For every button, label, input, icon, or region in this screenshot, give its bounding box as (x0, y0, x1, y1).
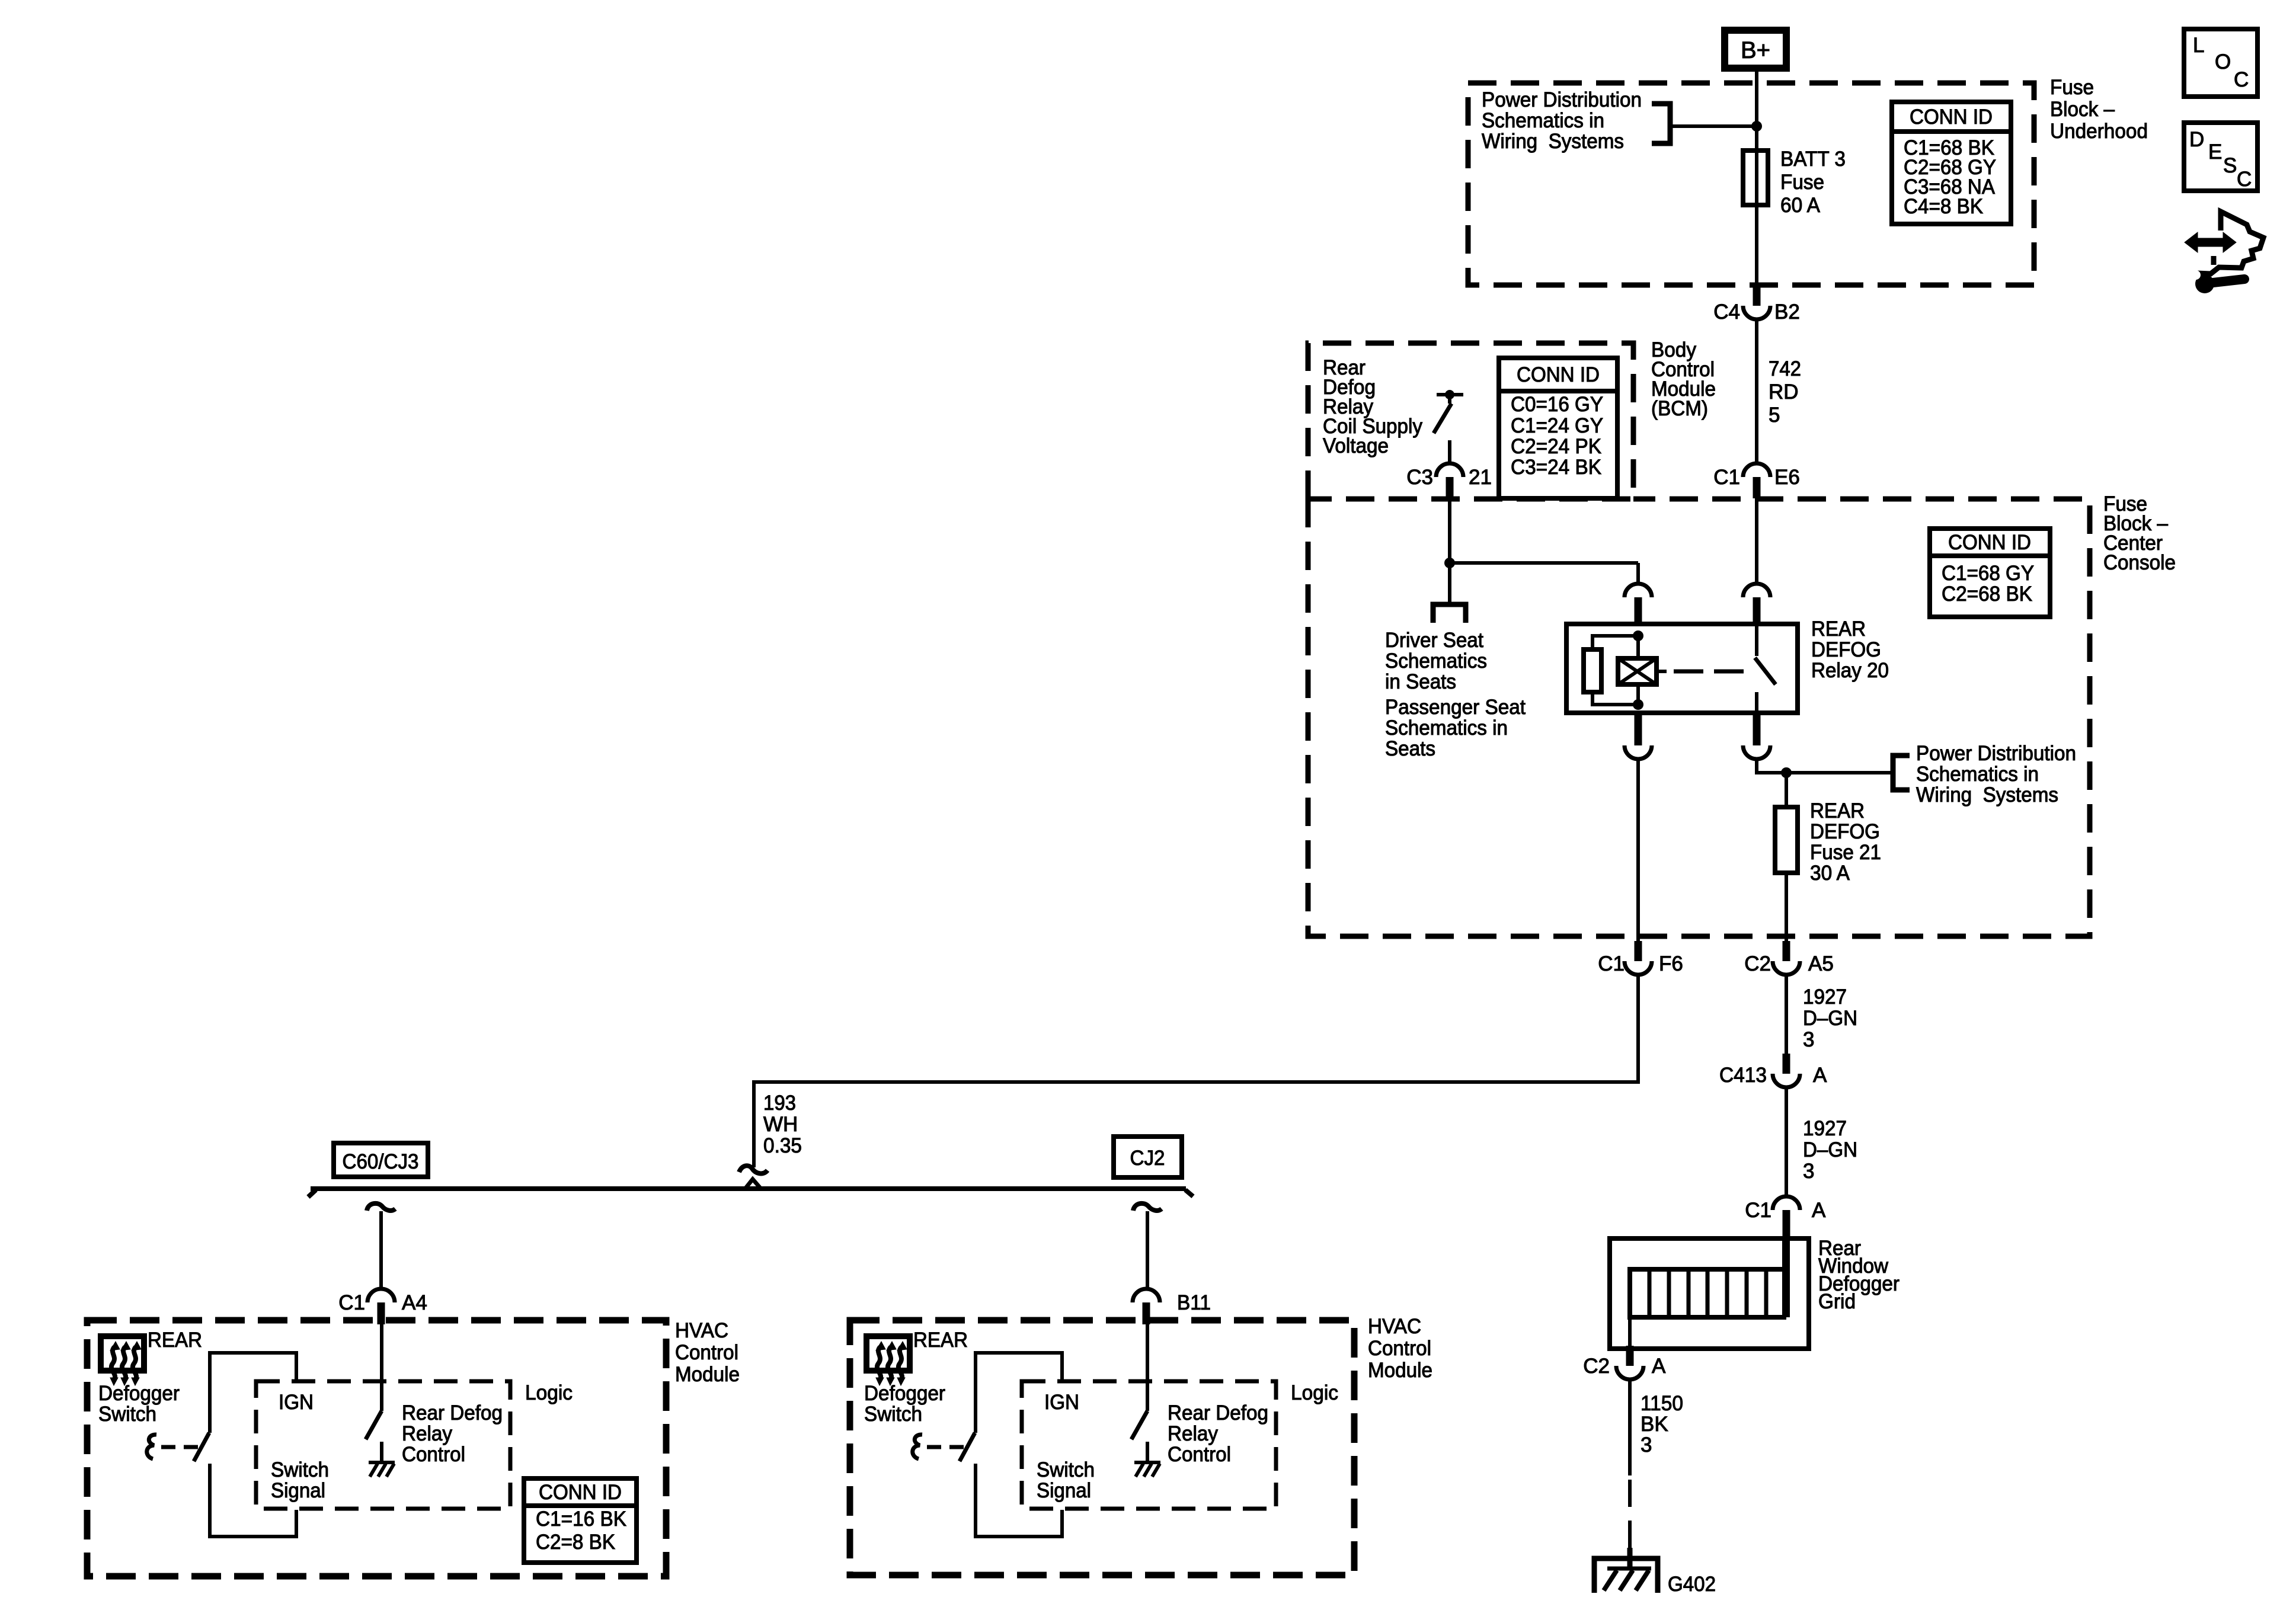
off-page bracket to Power Distribution console (1893, 756, 1910, 790)
connector C1 F6 (1625, 941, 1652, 975)
svg-text:1927: 1927 (1803, 1117, 1847, 1140)
dashed wire to ground (1628, 1480, 1632, 1548)
svg-text:B11: B11 (1177, 1291, 1211, 1314)
svg-text:30 A: 30 A (1810, 862, 1850, 885)
svg-text:742: 742 (1769, 357, 1801, 380)
wire relay to fuse junction (1757, 759, 1891, 773)
splice crimp symbol (739, 1166, 768, 1173)
node junction rear defog fuse (1781, 767, 1792, 778)
svg-text:CONN ID: CONN ID (1910, 105, 1993, 129)
svg-text:Schematics in: Schematics in (1482, 109, 1604, 132)
svg-text:Switch: Switch (98, 1403, 156, 1426)
svg-text:Seats: Seats (1385, 737, 1435, 760)
connector C1 E6 (1743, 463, 1770, 498)
body control module dashed box (1308, 343, 1633, 499)
rear defog relay control driver (1131, 1323, 1160, 1477)
wire 1150 BK 3 (1628, 1379, 1632, 1475)
svg-text:IGN: IGN (279, 1391, 314, 1414)
svg-text:Control: Control (402, 1443, 465, 1466)
defogger grid element (1627, 1238, 1790, 1317)
icon DESC box (2184, 123, 2257, 191)
defogger switch dashed link (927, 1445, 970, 1449)
svg-text:C1=68 GY: C1=68 GY (1942, 562, 2034, 585)
label box CJ2 (1114, 1137, 1182, 1177)
svg-text:REAR: REAR (1811, 617, 1866, 641)
wire B+ to fuse BATT 3 (1755, 72, 1758, 286)
svg-text:C3: C3 (1406, 466, 1433, 489)
svg-text:IGN: IGN (1044, 1391, 1079, 1414)
svg-text:CJ2: CJ2 (1130, 1147, 1165, 1170)
defogger switch dashed link (161, 1445, 204, 1449)
svg-text:193: 193 (763, 1092, 796, 1115)
svg-text:Underhood: Underhood (2050, 120, 2148, 143)
svg-text:Switch: Switch (271, 1458, 329, 1481)
svg-text:C: C (2234, 68, 2249, 91)
svg-text:Defogger: Defogger (864, 1382, 945, 1405)
power symbol B+ (1725, 30, 1786, 68)
svg-text:C2=68 BK: C2=68 BK (1942, 582, 2032, 606)
svg-text:21: 21 (1469, 466, 1492, 489)
svg-text:Console: Console (2103, 551, 2176, 574)
off-page bracket to Power Distribution (1652, 104, 1670, 143)
svg-text:in Seats: in Seats (1385, 670, 1456, 693)
wire 1927 D-GN upper (1785, 975, 1788, 1054)
relay output connector 85 (1625, 714, 1652, 759)
svg-text:Logic: Logic (525, 1381, 573, 1404)
svg-text:C4: C4 (1713, 300, 1740, 324)
svg-text:1150: 1150 (1641, 1392, 1683, 1415)
svg-text:Driver Seat: Driver Seat (1385, 629, 1483, 652)
indicator REAR defogger (866, 1336, 910, 1385)
svg-text:Schematics in: Schematics in (1385, 716, 1508, 740)
svg-text:D–GN: D–GN (1803, 1138, 1857, 1161)
svg-text:G402: G402 (1668, 1573, 1716, 1596)
node junction coil supply (1444, 558, 1455, 568)
svg-text:Switch: Switch (864, 1403, 922, 1426)
defogger switch actuator curl (913, 1435, 922, 1459)
fuse block center console dashed box (1308, 499, 2090, 936)
svg-text:Signal: Signal (1037, 1479, 1091, 1502)
svg-text:3: 3 (1803, 1028, 1814, 1051)
svg-text:Module: Module (675, 1363, 740, 1386)
svg-text:Block –: Block – (2050, 98, 2115, 121)
svg-text:Grid: Grid (1818, 1290, 1856, 1313)
svg-text:DEFOG: DEFOG (1810, 820, 1880, 843)
connector table CONN ID HVAC (524, 1478, 637, 1563)
svg-text:DEFOG: DEFOG (1811, 638, 1881, 661)
svg-text:Fuse: Fuse (1780, 171, 1824, 194)
svg-text:CONN ID: CONN ID (1948, 531, 2031, 554)
connector C4 B2 (1743, 286, 1770, 319)
logic dashed box (256, 1381, 510, 1509)
wire junction to relay coil (1450, 561, 1638, 565)
svg-text:Relay: Relay (402, 1422, 452, 1445)
svg-text:Defogger: Defogger (98, 1382, 180, 1405)
HVAC control module dashed box left (87, 1320, 666, 1576)
svg-text:C2=24 PK: C2=24 PK (1511, 435, 1601, 458)
svg-text:A: A (1812, 1199, 1826, 1222)
svg-text:C1: C1 (1745, 1199, 1771, 1222)
svg-text:REAR: REAR (913, 1329, 968, 1352)
logic dashed box (1022, 1381, 1276, 1509)
ground G402 (1594, 1548, 1658, 1593)
relay output connector 87 (1743, 714, 1770, 759)
relay actuation dashed link (1674, 670, 1746, 674)
svg-text:HVAC: HVAC (1368, 1315, 1421, 1338)
svg-text:C1=16 BK: C1=16 BK (536, 1507, 626, 1531)
wire C1 E6 to relay (1755, 498, 1758, 584)
relay coil element (1618, 658, 1667, 684)
wire junction to bracket (1670, 124, 1757, 128)
svg-text:A4: A4 (402, 1291, 427, 1314)
HVAC control module dashed box right (850, 1320, 1354, 1575)
svg-text:Schematics: Schematics (1385, 649, 1487, 673)
svg-text:C2=8 BK: C2=8 BK (536, 1531, 615, 1554)
svg-text:1927: 1927 (1803, 985, 1847, 1009)
svg-text:E6: E6 (1774, 466, 1800, 489)
switch rear defog relay coil supply (1437, 393, 1463, 396)
svg-text:WH: WH (763, 1113, 798, 1136)
svg-text:C60/CJ3: C60/CJ3 (343, 1150, 419, 1173)
svg-text:Signal: Signal (271, 1479, 325, 1502)
svg-text:C2: C2 (1583, 1355, 1610, 1378)
fuse block underhood dashed box (1468, 83, 2034, 285)
svg-text:CONN ID: CONN ID (1517, 363, 1600, 386)
svg-text:O: O (2215, 50, 2231, 73)
node junction at B+ feed (1751, 121, 1762, 132)
svg-text:Wiring Systems: Wiring Systems (1482, 130, 1624, 153)
wire 1927 D-GN lower (1785, 1087, 1788, 1196)
svg-text:3: 3 (1803, 1160, 1814, 1183)
svg-text:C1: C1 (1713, 466, 1740, 489)
drop wire to C1 A4 (367, 1204, 395, 1211)
label box C60/CJ3 (334, 1143, 428, 1177)
svg-text:0.35: 0.35 (763, 1134, 802, 1157)
svg-text:A: A (1652, 1355, 1666, 1378)
wire relay to C1 F6 (1636, 759, 1640, 943)
splice pointer caret (746, 1179, 760, 1188)
connector C1 A4 (367, 1289, 395, 1324)
svg-text:F6: F6 (1659, 952, 1683, 975)
svg-text:D: D (2189, 128, 2204, 151)
wire junction to fuse 21 (1785, 773, 1788, 807)
svg-text:3: 3 (1641, 1433, 1652, 1457)
splice bus line (311, 1186, 1186, 1191)
svg-text:C: C (2237, 168, 2252, 191)
svg-text:BATT 3: BATT 3 (1780, 148, 1846, 171)
fuse BATT 3 60 A (1743, 151, 1768, 205)
connector C1 A grid (1773, 1196, 1800, 1238)
svg-text:Fuse: Fuse (2050, 76, 2094, 99)
svg-text:Module: Module (1368, 1359, 1432, 1382)
wire C1 F6 to splice bus (754, 975, 1638, 1167)
connector table CONN ID BCM (1499, 358, 1617, 498)
svg-text:Power Distribution: Power Distribution (1482, 88, 1642, 111)
connector C3 21 (1436, 463, 1463, 498)
svg-text:Voltage: Voltage (1323, 434, 1389, 457)
svg-text:Rear Defog: Rear Defog (402, 1401, 503, 1425)
svg-text:B2: B2 (1774, 300, 1800, 324)
wire grid to C2 A (1628, 1320, 1632, 1346)
svg-text:C4=8 BK: C4=8 BK (1904, 195, 1983, 218)
svg-text:L: L (2193, 34, 2204, 57)
svg-text:Schematics in: Schematics in (1916, 763, 2039, 786)
relay coil circuit (1593, 630, 1643, 710)
svg-text:C1: C1 (338, 1291, 365, 1314)
defogger switch actuator curl (147, 1435, 156, 1459)
rear window defogger grid box (1610, 1238, 1809, 1349)
svg-text:C1: C1 (1598, 952, 1625, 975)
svg-text:(BCM): (BCM) (1651, 397, 1708, 420)
svg-text:Control: Control (1168, 1443, 1231, 1466)
svg-text:Control: Control (1368, 1337, 1431, 1360)
rear defog relay control driver (366, 1323, 395, 1477)
svg-text:CONN ID: CONN ID (539, 1481, 622, 1504)
splice bus right end hook (1185, 1190, 1193, 1196)
svg-text:C3=24 BK: C3=24 BK (1511, 456, 1601, 479)
svg-text:Relay: Relay (1168, 1422, 1218, 1445)
svg-text:C413: C413 (1719, 1064, 1767, 1087)
svg-text:C1=24 GY: C1=24 GY (1511, 414, 1603, 437)
defogger switch contacts (194, 1353, 296, 1537)
svg-text:HVAC: HVAC (675, 1319, 728, 1342)
svg-text:BK: BK (1641, 1413, 1668, 1436)
svg-text:Wiring Systems: Wiring Systems (1916, 783, 2058, 806)
connector table CONN ID underhood (1892, 102, 2011, 224)
svg-text:RD: RD (1769, 380, 1799, 404)
relay coil resistor (1584, 649, 1601, 692)
svg-text:Power Distribution: Power Distribution (1916, 742, 2076, 765)
wire C3 to junction (1448, 499, 1451, 565)
icon LOC box (2184, 29, 2257, 97)
wire junction to seats bracket (1448, 563, 1451, 604)
connector C413 A (1773, 1054, 1800, 1087)
splice bus left end hook (308, 1190, 316, 1197)
svg-text:REAR: REAR (148, 1329, 202, 1352)
svg-text:Rear Defog: Rear Defog (1168, 1401, 1268, 1425)
svg-text:Passenger Seat: Passenger Seat (1385, 696, 1526, 719)
svg-text:B+: B+ (1741, 37, 1770, 63)
svg-text:A: A (1813, 1064, 1827, 1087)
svg-text:Logic: Logic (1291, 1381, 1338, 1404)
wire fuse 21 to C2 A5 (1785, 873, 1788, 943)
connector B11 (1133, 1289, 1160, 1324)
relay REAR DEFOG box (1566, 624, 1798, 713)
relay switch contacts (1755, 624, 1776, 713)
wire 742 RD 5 (1755, 319, 1758, 463)
svg-text:Switch: Switch (1037, 1458, 1095, 1481)
svg-text:C0=16 GY: C0=16 GY (1511, 393, 1603, 416)
icon arrow with wrench (2185, 212, 2263, 293)
drop wire to B11 (1133, 1204, 1162, 1211)
svg-text:Relay 20: Relay 20 (1811, 659, 1889, 682)
fuse REAR DEFOG 21 30 A (1775, 807, 1798, 873)
svg-text:A5: A5 (1808, 952, 1834, 975)
svg-text:C2: C2 (1744, 952, 1771, 975)
svg-text:REAR: REAR (1810, 799, 1865, 822)
off-page bracket to Driver Seat Schematics (1433, 604, 1466, 623)
svg-text:Control: Control (675, 1341, 738, 1364)
relay terminal 30 connector (1743, 584, 1770, 625)
relay terminal 86 connector (1625, 584, 1652, 625)
indicator REAR defogger (101, 1336, 144, 1385)
defogger switch contacts (960, 1353, 1062, 1537)
connector table CONN ID center console (1930, 529, 2050, 617)
svg-text:5: 5 (1769, 404, 1780, 427)
svg-text:D–GN: D–GN (1803, 1007, 1857, 1030)
svg-text:60 A: 60 A (1780, 194, 1821, 217)
svg-text:Fuse 21: Fuse 21 (1810, 841, 1881, 864)
svg-text:E: E (2208, 140, 2222, 164)
connector C2 A grid (1616, 1346, 1643, 1379)
connector C2 A5 (1773, 941, 1800, 975)
svg-text:S: S (2223, 154, 2237, 177)
